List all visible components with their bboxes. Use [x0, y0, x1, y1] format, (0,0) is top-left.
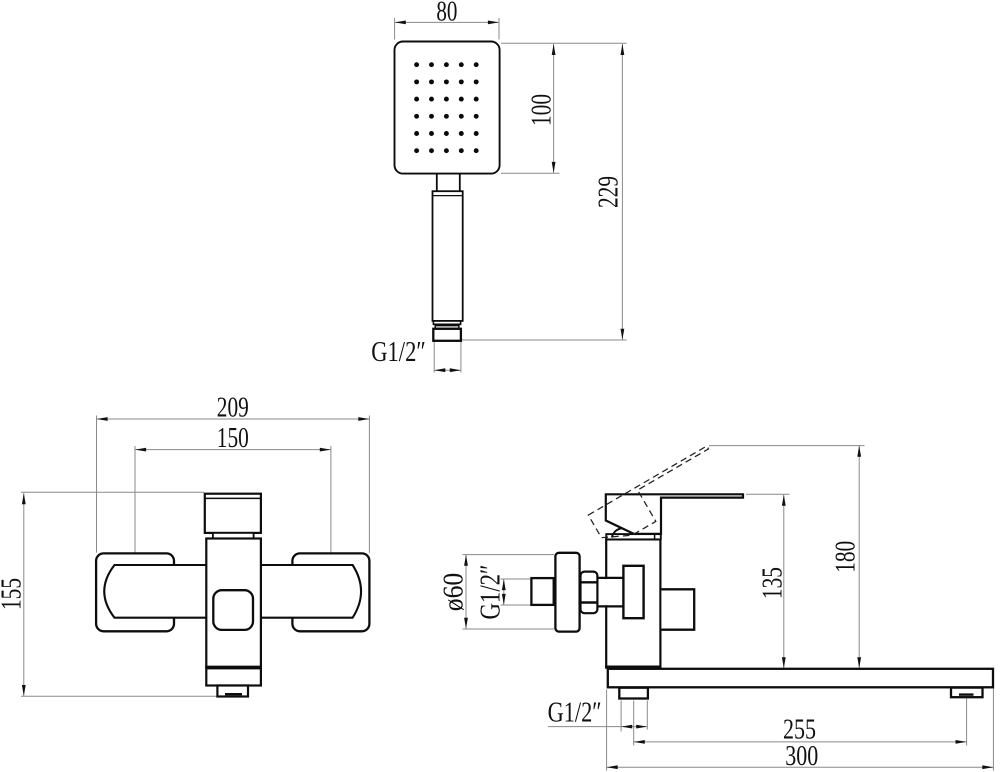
dim 300 right extension line: [992, 689, 994, 771]
dim 229 bottom extension line: [462, 339, 627, 341]
dim 255 left extension line: [633, 701, 635, 746]
dim 80 dimension line: [395, 21, 499, 23]
side view hex nut: [581, 572, 598, 614]
svg-text:80: 80: [436, 0, 457, 27]
dim 180 top extension line: [709, 445, 865, 447]
front view left wall flange: [96, 553, 174, 631]
dim 150 dimension line: [135, 449, 331, 451]
dim 209 right extension line: [368, 416, 370, 553]
svg-text:100: 100: [527, 94, 558, 126]
shower head neck: [437, 174, 460, 191]
side view solid lever handle: [606, 494, 743, 534]
dim 155 dimension line: [23, 493, 25, 696]
dim diam60 top extension line: [463, 554, 555, 556]
side view left foot: [619, 688, 648, 699]
handle G1/2 left extension line: [433, 342, 435, 373]
front view right wall flange: [292, 553, 369, 631]
foot G1/2 right extension line: [646, 701, 648, 730]
side view cartridge cover plate: [623, 566, 643, 618]
dim 150 left extension line: [134, 446, 136, 553]
svg-text:180: 180: [831, 541, 862, 573]
dim 100 dimension line: [553, 44, 555, 173]
shower handle tube: [433, 191, 463, 321]
front view aerator foot: [217, 686, 248, 697]
thread G1/2 dimension line: [503, 579, 505, 605]
svg-text:209: 209: [217, 392, 249, 423]
dim 150 arrows: [135, 448, 146, 452]
svg-text:G1/2″: G1/2″: [476, 565, 507, 620]
front view spout end-on: [206, 668, 261, 685]
side view diverter knob: [661, 589, 694, 629]
svg-text:229: 229: [594, 176, 625, 208]
thread G1/2 bottom extension line: [501, 604, 532, 606]
dim diam60 bottom extension line: [463, 628, 555, 630]
dim 100 arrows: [552, 44, 556, 55]
svg-text:150: 150: [217, 423, 249, 454]
dim 155 arrows: [22, 493, 26, 504]
svg-text:G1/2″: G1/2″: [371, 337, 426, 368]
shower handle tube bottom step: [433, 321, 460, 324]
dim 255 right extension line: [966, 699, 968, 746]
svg-text:135: 135: [758, 567, 789, 599]
svg-text:155: 155: [0, 578, 28, 610]
dim diam60 arrows: [464, 555, 468, 566]
dashed raised lever handle (rotated position): [588, 446, 708, 538]
dim 80 right extension line: [498, 18, 500, 40]
dim 135 arrows: [782, 495, 786, 506]
side view top cap: [606, 534, 661, 539]
dim 180 arrows: [857, 446, 861, 457]
dim 300 arrows: [607, 765, 618, 769]
front view top cap (handle seen from front): [205, 494, 261, 533]
front view decorative square plate: [213, 590, 253, 630]
svg-text:G1/2″: G1/2″: [548, 697, 602, 728]
dim 155 top extension line: [21, 491, 204, 493]
dim 155 bottom extension line: [21, 695, 217, 697]
dim 229 dimension line: [621, 44, 623, 340]
front view main body: [206, 539, 261, 667]
dim 255 arrows: [634, 740, 645, 744]
dim diam60 dimension line: [465, 555, 467, 629]
shower head body: [395, 42, 500, 174]
side view spout bar: [608, 669, 993, 688]
front view left inlet pipe: [104, 565, 207, 618]
dim 229 arrows: [621, 44, 625, 55]
dim 135 dimension line: [783, 495, 785, 669]
dim 209 dimension line: [97, 418, 370, 420]
shower head spray nozzles (5x6 dots): [414, 62, 479, 153]
side view ball dome arc: [612, 528, 632, 537]
side view main body: [606, 539, 660, 666]
dim 300 dimension line: [607, 766, 994, 768]
dim 135 top extension line: [746, 493, 790, 495]
handle G1/2 arrows: [434, 368, 445, 372]
side view connector pipe into body: [599, 579, 625, 605]
dim 80 arrows: [395, 21, 406, 25]
dim 80 left extension line: [394, 18, 396, 40]
svg-text:300: 300: [785, 741, 818, 772]
side view wall thread pipe: [531, 578, 553, 605]
dim 150 right extension line: [330, 446, 332, 553]
thread G1/2 arrows: [502, 579, 506, 590]
top extension line for dims 100 and 229: [501, 42, 627, 44]
handle G1/2 dimension line: [434, 369, 461, 371]
dim 180 dimension line: [858, 446, 860, 669]
foot G1/2 dimension line: [548, 726, 647, 728]
dim 300 left extension line: [606, 690, 608, 771]
thread G1/2 top extension line: [501, 578, 532, 580]
handle G1/2 right extension line: [460, 342, 462, 373]
foot G1/2 arrows: [621, 725, 632, 729]
shower handle connector nut: [433, 329, 461, 341]
dim 209 left extension line: [96, 416, 98, 553]
dim 100 bottom extension line: [501, 172, 560, 174]
front view neck under handle cap: [213, 533, 254, 539]
shower handle ring: [435, 326, 459, 329]
front view right inlet pipe: [260, 565, 362, 618]
dim 209 arrows: [97, 417, 108, 421]
side view right foot: [951, 688, 983, 698]
side view wall escutcheon: [555, 553, 579, 632]
dim 255 dimension line: [634, 741, 967, 743]
svg-text:ø60: ø60: [439, 573, 470, 612]
foot G1/2 left extension line: [620, 701, 622, 732]
